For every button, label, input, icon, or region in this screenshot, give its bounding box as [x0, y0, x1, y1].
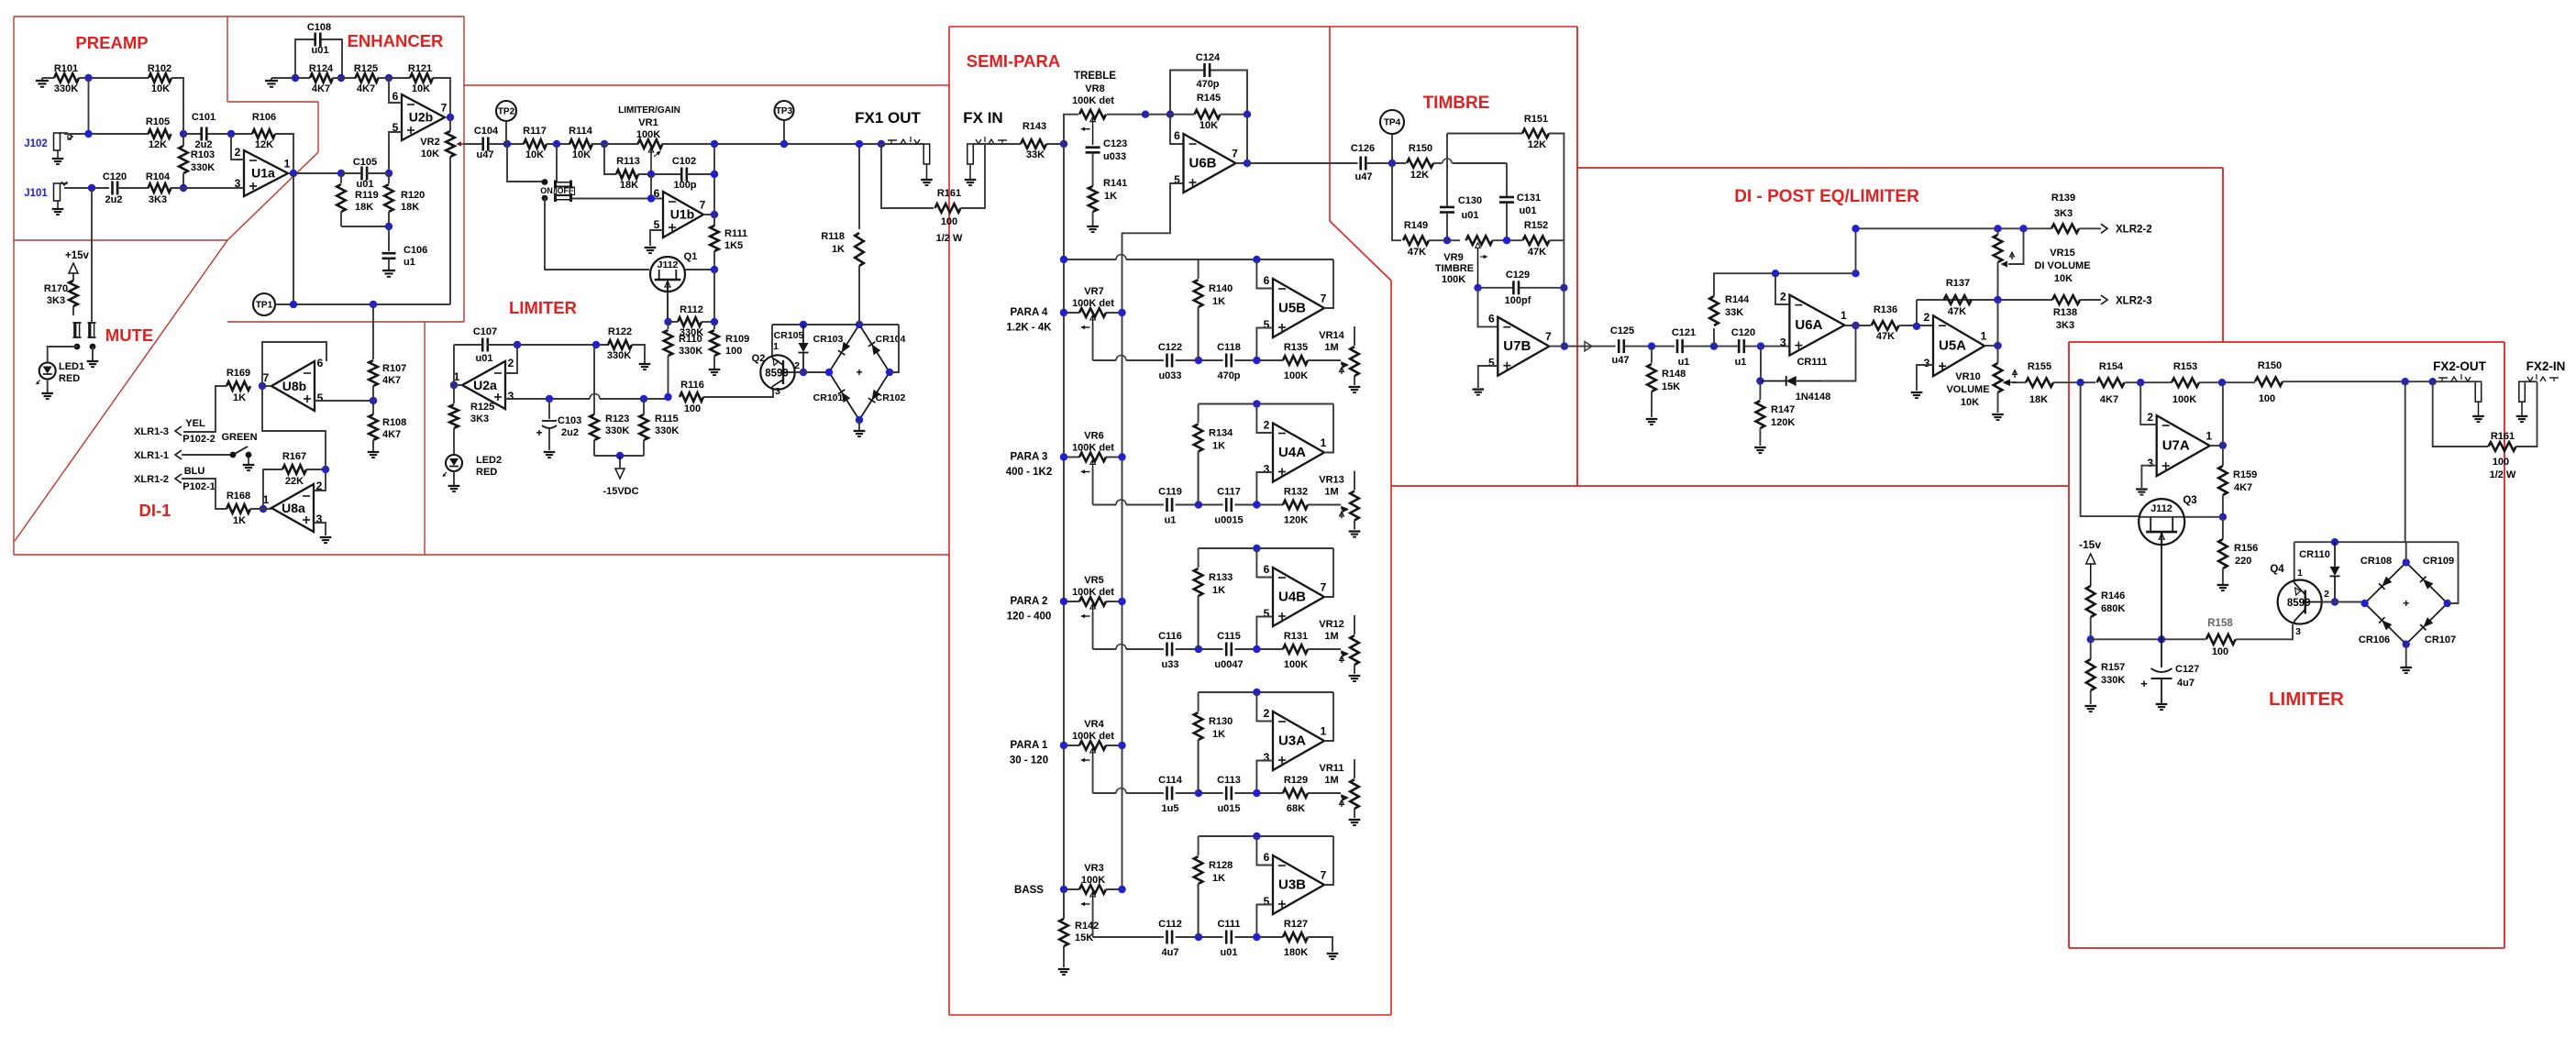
svg-text:u01: u01 — [312, 45, 329, 56]
node XLR2-2/U6A — [1852, 225, 1859, 232]
FX2-OUT jack marks — [2438, 377, 2448, 379]
resistor R102 10K — [149, 73, 171, 83]
ground at GREEN switch — [243, 464, 255, 466]
svg-text:47K: 47K — [1408, 247, 1426, 258]
svg-text:100K: 100K — [1284, 370, 1308, 381]
svg-text:33K: 33K — [1725, 307, 1743, 318]
svg-text:R101: R101 — [54, 63, 78, 74]
wire wiper node to U1b pin6 row — [650, 174, 652, 199]
wire R169 left corner down to XLR1-3 — [183, 386, 227, 432]
svg-text:18K: 18K — [401, 202, 419, 213]
svg-text:R122: R122 — [608, 326, 632, 337]
capacitor C121 u1 — [1676, 339, 1679, 353]
svg-text:C103: C103 — [558, 415, 581, 426]
svg-text:R159: R159 — [2233, 469, 2257, 480]
svg-text:u47: u47 — [477, 149, 494, 160]
svg-text:R124: R124 — [309, 63, 334, 74]
bridge node top — [2403, 558, 2410, 566]
svg-text:680K: 680K — [2101, 603, 2125, 614]
ground at FX2-IN jack — [2516, 415, 2528, 417]
node U6A output — [1852, 322, 1859, 329]
svg-text:2: 2 — [2324, 589, 2329, 600]
capacitor C126 u47 — [1359, 157, 1362, 171]
CR110 rail — [2294, 541, 2459, 543]
wire down to C106 — [388, 226, 390, 251]
ground under C103 — [544, 451, 556, 453]
svg-text:100: 100 — [941, 216, 957, 227]
svg-text:5: 5 — [1264, 318, 1270, 331]
svg-text:CR105: CR105 — [774, 330, 804, 341]
svg-text:100: 100 — [2212, 646, 2228, 657]
bridge node left — [825, 369, 833, 376]
svg-text:R161: R161 — [937, 188, 961, 199]
resistor R130 1K vertical — [1198, 692, 1200, 712]
svg-text:100K: 100K — [1081, 875, 1105, 886]
svg-text:C124: C124 — [1196, 52, 1221, 63]
wire capA to capB — [1176, 936, 1223, 938]
svg-text:1K: 1K — [1212, 729, 1225, 740]
wire VR2 bottom to TP1 row — [449, 157, 451, 304]
node rail pin 2 — [1253, 689, 1260, 696]
node VR15 bottom / XLR2-3 — [1994, 296, 2001, 303]
test point TP2 — [496, 101, 516, 121]
section box DI-POST EQ/LIMITER — [1577, 167, 2223, 169]
node R103 bottom — [180, 184, 187, 192]
svg-text:XLR2-3: XLR2-3 — [2116, 296, 2152, 307]
XLR1-2 arrow — [175, 474, 182, 483]
ground under VR13 — [1349, 530, 1361, 532]
svg-text:PARA 4: PARA 4 — [1011, 307, 1049, 318]
wire U3B pin5 — [1256, 905, 1273, 938]
svg-text:C118: C118 — [1217, 342, 1241, 353]
svg-text:2: 2 — [1264, 419, 1270, 432]
svg-text:TP4: TP4 — [1384, 118, 1401, 128]
wire wiper to filter row — [1092, 324, 1094, 360]
svg-text:R161: R161 — [2491, 431, 2515, 442]
node R146/R157 row — [2087, 635, 2095, 643]
wire switch lower contact to Q1 gate row — [545, 198, 649, 270]
rail U3A bracket — [1199, 691, 1333, 693]
section box LIMITER top border — [464, 84, 949, 86]
wire R168 to U8a — [250, 508, 271, 510]
wire R114 to VR1 — [591, 143, 638, 145]
svg-text:u01: u01 — [476, 353, 493, 364]
svg-text:3K3: 3K3 — [47, 295, 65, 306]
svg-text:R137: R137 — [1946, 278, 1970, 289]
wire U2a pin3 row — [505, 398, 549, 400]
svg-text:RED: RED — [59, 373, 80, 384]
wire R102 to R103 top corner — [171, 78, 183, 134]
wire capA to capB — [1176, 359, 1223, 361]
svg-text:100K: 100K — [1284, 659, 1308, 670]
node pot left — [1060, 309, 1067, 316]
resistor R105 12K — [149, 129, 171, 138]
svg-text:4K7: 4K7 — [357, 83, 375, 94]
svg-text:J102: J102 — [24, 138, 48, 149]
wire U3B output to rail — [1324, 836, 1333, 885]
capacitor C107 u01 — [481, 338, 484, 352]
svg-text:SEMI-PARA: SEMI-PARA — [967, 51, 1060, 71]
wire R137 corner to R136 node — [1916, 300, 1918, 326]
capacitor C111 u01 — [1225, 931, 1228, 944]
wire C125 to C121 — [1624, 346, 1675, 347]
svg-text:1/2 W: 1/2 W — [936, 233, 963, 244]
capacitor C113 u015 — [1225, 787, 1228, 800]
switch contact upper — [542, 179, 548, 185]
node C124/R145 left — [1166, 111, 1174, 118]
wire R127 to ground — [1308, 937, 1332, 952]
svg-text:U3A: U3A — [1278, 734, 1306, 749]
resistor R170 3K3 vertical — [69, 281, 78, 306]
wire -15v row to R158 — [2091, 638, 2206, 640]
svg-text:6: 6 — [1264, 563, 1270, 576]
svg-text:10K: 10K — [1961, 397, 1979, 408]
mute switch plug right — [88, 323, 91, 337]
node TP1/U1a drop — [290, 301, 297, 308]
node bus1/rail — [1060, 256, 1067, 263]
svg-text:-15VDC: -15VDC — [603, 486, 638, 497]
capacitor C130 u01 — [1440, 206, 1454, 209]
svg-text:1M: 1M — [1324, 631, 1338, 642]
svg-text:XLR1-2: XLR1-2 — [134, 474, 169, 485]
node C105 left — [337, 170, 345, 177]
+15v arrow — [69, 263, 78, 273]
wire TP4 node down to R149 — [1392, 163, 1401, 240]
op-amp U8b (left pointing) — [271, 361, 315, 411]
capacitor C129 100pf — [1512, 281, 1515, 294]
resistor R138 3K3 — [2052, 295, 2080, 304]
svg-text:1K: 1K — [1104, 191, 1117, 202]
resistor R154 4K7 — [2097, 378, 2125, 387]
svg-text:C105: C105 — [353, 157, 377, 168]
node R153/U7A output — [2218, 379, 2226, 386]
wire feedback line to R112 row — [713, 270, 715, 322]
capacitor C123 u033 — [1092, 126, 1094, 145]
wire R135 to VR14 wiper — [1308, 359, 1341, 361]
node U7B output — [1561, 342, 1568, 349]
wire C121 to C120 — [1683, 346, 1739, 347]
node pot left — [1060, 886, 1067, 893]
ground under bridge — [854, 430, 866, 432]
svg-text:47K: 47K — [1876, 331, 1895, 342]
svg-text:1.2K - 4K: 1.2K - 4K — [1006, 323, 1052, 334]
ground at J102 — [52, 158, 64, 160]
svg-text:1: 1 — [2297, 568, 2303, 579]
ground after R122 — [639, 363, 651, 365]
ground at J101 — [52, 208, 64, 210]
svg-text:3: 3 — [1264, 751, 1270, 764]
wire gnd to R124 — [271, 77, 310, 79]
resistor R121 10K — [410, 73, 433, 83]
node C104/TP2 — [503, 140, 511, 148]
svg-text:R167: R167 — [282, 451, 306, 462]
svg-text:Q2: Q2 — [752, 353, 766, 364]
svg-text:2u2: 2u2 — [561, 427, 579, 438]
bridge node right — [886, 369, 893, 376]
svg-text:u01: u01 — [1462, 210, 1479, 221]
wire R139 to XLR2-2 arrow — [2079, 227, 2101, 229]
wire R150 to FX2-OUT — [2283, 381, 2433, 382]
wire U6A pin2 — [1775, 273, 1789, 304]
svg-text:12K: 12K — [1528, 139, 1546, 150]
svg-text:7: 7 — [1232, 148, 1238, 160]
svg-text:R125: R125 — [354, 63, 378, 74]
node CR105 bottom — [800, 369, 807, 376]
svg-text:C102: C102 — [672, 156, 696, 167]
op-amp U2a (left pointing) — [462, 361, 505, 409]
wire J101 bus down to mute plug — [91, 188, 93, 323]
wire U5B pin5 — [1256, 328, 1273, 361]
node R124/R125 — [337, 74, 345, 82]
svg-text:5: 5 — [1264, 607, 1270, 620]
node filter mid — [1195, 789, 1202, 797]
svg-text:VR13: VR13 — [1319, 475, 1344, 486]
svg-text:1K: 1K — [1212, 873, 1225, 884]
resistor R142 15K vertical — [1063, 889, 1065, 919]
node R149/C130/VR9 — [1443, 237, 1451, 244]
FX2-OUT jack — [2475, 381, 2482, 402]
wire U3B pin6 — [1256, 836, 1273, 866]
svg-text:1K: 1K — [832, 244, 845, 255]
wire switch feed down — [556, 144, 558, 182]
svg-text:2: 2 — [235, 146, 241, 159]
svg-text:R158: R158 — [2207, 618, 2233, 629]
svg-text:10K: 10K — [1200, 120, 1218, 131]
svg-text:Q1: Q1 — [684, 251, 698, 262]
op-amp U6B — [1184, 134, 1236, 193]
ground at U8a pin3 — [320, 536, 332, 538]
svg-text:R130: R130 — [1209, 716, 1233, 727]
node R112/R109 — [711, 318, 718, 325]
wire C101 to R106/U1a — [207, 133, 252, 135]
svg-text:1: 1 — [1981, 330, 1987, 343]
svg-text:R131: R131 — [1284, 631, 1308, 642]
svg-text:VR11: VR11 — [1320, 763, 1344, 774]
wire U3A pin3 — [1256, 761, 1273, 794]
resistor R109 100 vertical — [713, 322, 715, 329]
svg-text:6: 6 — [1264, 274, 1270, 287]
svg-text:R111: R111 — [724, 228, 747, 239]
node filter mid — [1195, 645, 1202, 653]
svg-text:C119: C119 — [1158, 487, 1182, 498]
svg-text:LIMITER: LIMITER — [509, 298, 577, 317]
wire FX2 vertical to bridge top — [2405, 381, 2406, 542]
wire U4B pin6 — [1256, 548, 1273, 578]
LED2 RED — [446, 455, 462, 471]
wire Q1 gate down to R112 row — [667, 283, 669, 322]
svg-text:2: 2 — [1780, 291, 1786, 303]
wire R144 to U6A rail — [1714, 273, 1775, 296]
svg-text:YEL: YEL — [185, 418, 205, 429]
svg-text:R139: R139 — [2051, 193, 2075, 204]
svg-text:120K: 120K — [1284, 515, 1308, 526]
resistor R113 18K — [616, 170, 638, 179]
svg-text:10K: 10K — [412, 83, 430, 94]
wire U5B pin6 — [1256, 259, 1273, 289]
svg-text:330K: 330K — [191, 162, 215, 173]
svg-text:3: 3 — [1264, 463, 1270, 476]
svg-text:R114: R114 — [569, 126, 593, 137]
svg-text:18K: 18K — [620, 180, 638, 191]
wire C104 to R117 — [489, 143, 524, 145]
svg-text:LIMITER/GAIN: LIMITER/GAIN — [618, 105, 680, 116]
ground at U7A pin3 — [2136, 488, 2148, 490]
wire XLR1-2 to R168 — [182, 479, 227, 509]
wire R155 into limiter box — [2053, 381, 2095, 383]
node pot left — [1060, 453, 1067, 460]
svg-text:330K: 330K — [2101, 675, 2125, 686]
svg-text:C111: C111 — [1217, 919, 1240, 930]
resistor R151 12K — [1522, 129, 1549, 138]
svg-text:100p: 100p — [673, 180, 696, 191]
-15v arrow — [2086, 554, 2095, 564]
wire U4B pin5 — [1256, 617, 1273, 650]
svg-text:J101: J101 — [24, 188, 48, 199]
svg-text:100: 100 — [725, 346, 742, 357]
svg-text:VR15: VR15 — [2050, 248, 2075, 259]
XLR1-3 arrow — [175, 426, 182, 436]
svg-text:DI - POST EQ/LIMITER: DI - POST EQ/LIMITER — [1734, 187, 1919, 206]
wire wiper to filter row — [1092, 900, 1094, 937]
svg-text:RED: RED — [476, 467, 497, 478]
svg-text:R156: R156 — [2234, 543, 2258, 554]
svg-text:1: 1 — [773, 341, 779, 352]
svg-text:3K3: 3K3 — [149, 194, 167, 205]
wire R132 to VR13 wiper — [1308, 504, 1341, 506]
wire R125 to R121 — [378, 77, 410, 79]
wire output vertical to U7B — [1563, 240, 1564, 346]
svg-text:100K det: 100K det — [1072, 95, 1114, 106]
resistor R136 47K — [1872, 321, 1899, 330]
svg-text:5: 5 — [1488, 357, 1495, 370]
svg-text:u033: u033 — [1158, 370, 1181, 381]
bridge node right — [2444, 600, 2451, 607]
wire U7A pin3 to ground — [2141, 466, 2156, 488]
wire C106 to ground — [388, 259, 390, 270]
resistor R169 1K — [227, 381, 250, 391]
node R123 top — [592, 341, 600, 348]
svg-text:R103: R103 — [191, 149, 215, 160]
potentiometer VR2 10K — [449, 117, 451, 131]
wire Q3 gate feed from R155 node — [2081, 382, 2139, 516]
svg-text:4K7: 4K7 — [312, 83, 330, 94]
wire U6B output to C126 — [1247, 162, 1358, 164]
wire capB to R — [1234, 648, 1283, 650]
svg-text:330K: 330K — [679, 346, 702, 357]
svg-text:7: 7 — [700, 199, 706, 212]
svg-text:R113: R113 — [616, 156, 640, 167]
node R107/R108 — [370, 397, 377, 404]
svg-text:VR7: VR7 — [1084, 286, 1103, 297]
node rail pin 6 — [1253, 256, 1260, 263]
ground under bridge — [2400, 667, 2412, 668]
node CR111 left — [1756, 377, 1763, 384]
svg-text:6: 6 — [317, 357, 324, 370]
node FX2-OUT jack — [2429, 378, 2437, 385]
ground under R109 — [709, 369, 721, 370]
svg-text:R150: R150 — [1409, 143, 1432, 154]
resistor R149 47K — [1403, 236, 1429, 245]
wire filter mid up to feedback R — [1198, 740, 1200, 793]
resistor R150 100 — [2255, 377, 2283, 386]
svg-text:PREAMP: PREAMP — [75, 33, 148, 52]
wire R153 to R150 — [2199, 381, 2255, 383]
svg-text:C120: C120 — [103, 171, 127, 182]
node R159/Q3/R156 — [2219, 513, 2227, 521]
resistor R134 1K vertical — [1198, 404, 1200, 424]
wire wiper to filter row — [1092, 469, 1094, 505]
svg-text:u1: u1 — [1165, 515, 1177, 526]
ground after R127 — [1327, 953, 1339, 954]
svg-text:BLU: BLU — [184, 466, 205, 477]
svg-text:47K: 47K — [1528, 247, 1546, 258]
svg-text:ON: ON — [540, 186, 553, 195]
svg-text:R149: R149 — [1404, 220, 1428, 231]
resistor R153 100K — [2172, 378, 2199, 387]
svg-text:18K: 18K — [2029, 394, 2048, 405]
svg-text:VOLUME: VOLUME — [1946, 384, 1989, 395]
resistor R120 18K vertical — [388, 173, 390, 183]
svg-text:1K5: 1K5 — [724, 240, 743, 251]
transistor Q4 8599 — [2278, 580, 2322, 624]
svg-text:C113: C113 — [1217, 775, 1241, 786]
rail U5B bracket — [1064, 259, 1116, 260]
svg-text:TIMBRE: TIMBRE — [1423, 94, 1490, 113]
wire capB to R — [1234, 504, 1283, 506]
wire TP3 stem — [783, 120, 785, 144]
svg-text:3: 3 — [1780, 336, 1786, 349]
feedback bracket U8b pin6 — [262, 342, 326, 386]
resistor R152 47K — [1523, 236, 1550, 245]
node R145 right / U6B out top — [1244, 111, 1251, 118]
svg-text:C129: C129 — [1506, 270, 1530, 281]
resistor R125 3K3 vertical (LED) — [453, 385, 455, 403]
wire R116 to Q2 — [703, 389, 773, 397]
node U6B output — [1244, 160, 1251, 167]
node C129 right — [1560, 284, 1567, 292]
resistor R157 330K vertical — [2090, 639, 2092, 659]
wire U1a output down to TP1 row — [293, 173, 294, 304]
svg-text:FX2-IN: FX2-IN — [2526, 359, 2566, 373]
svg-text:C104: C104 — [474, 126, 499, 137]
op-amp U4A — [1273, 424, 1324, 482]
svg-text:U8b: U8b — [282, 379, 306, 393]
svg-text:Q4: Q4 — [2270, 564, 2284, 575]
svg-text:R155: R155 — [2028, 361, 2051, 372]
ground under LED1 — [41, 392, 53, 394]
svg-text:400 - 1K2: 400 - 1K2 — [1006, 467, 1053, 478]
svg-text:U7A: U7A — [2162, 438, 2190, 454]
svg-text:VR12: VR12 — [1319, 619, 1344, 630]
resistor R137 47K — [1944, 295, 1972, 304]
resistor R159 4K7 vertical — [2222, 446, 2224, 466]
resistor R145 10K — [1195, 110, 1221, 119]
ground under VR14 — [1349, 386, 1361, 388]
node R101/R102 — [84, 74, 92, 82]
potentiometer VR1 100K — [638, 139, 663, 149]
resistor R128 1K vertical — [1198, 836, 1200, 855]
svg-text:2: 2 — [794, 360, 800, 371]
FX1 out jack — [923, 144, 930, 164]
ground under R141 — [1087, 226, 1099, 227]
svg-text:3: 3 — [775, 386, 780, 397]
svg-text:TP1: TP1 — [256, 301, 273, 311]
node U5A output — [1994, 342, 2001, 349]
capacitor C102 100p — [680, 168, 683, 182]
wire TP2 stem — [505, 121, 507, 144]
svg-text:CR109: CR109 — [2423, 556, 2454, 567]
svg-text:R119: R119 — [355, 190, 379, 201]
